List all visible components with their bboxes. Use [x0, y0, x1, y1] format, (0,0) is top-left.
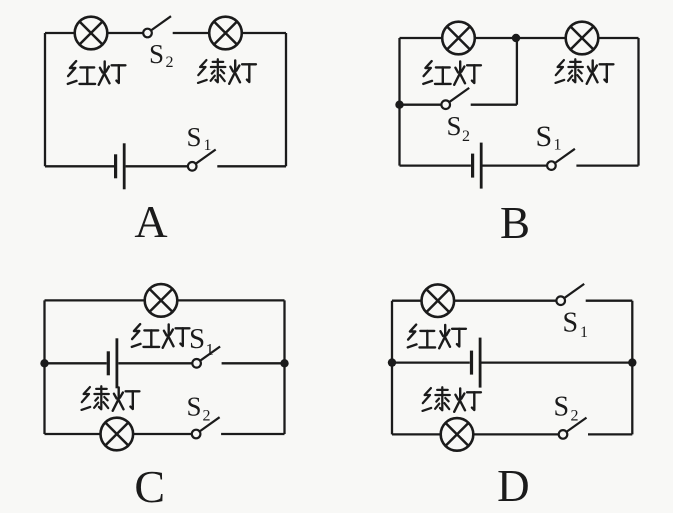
wire: D right side [631, 301, 633, 435]
wire: D top run (left corner to S1 pivot) [392, 300, 556, 302]
switch S2 circuit B [441, 88, 469, 109]
wire: C bottom run (S2 contact to right corner) [221, 433, 284, 435]
label 红灯 circuit C [132, 324, 190, 348]
svg-text:1: 1 [204, 137, 212, 154]
wire: D left side [391, 301, 393, 435]
wire: A left side [44, 33, 46, 166]
lamp 绿灯 (green lamp) circuit B [566, 22, 599, 55]
junction node on B top wire [512, 34, 520, 42]
switch S1 circuit B [547, 149, 575, 170]
svg-text:S: S [149, 39, 164, 69]
wire: C middle run (S1 contact to right node) [222, 362, 285, 364]
wire: B left side [398, 38, 400, 166]
lamp 红灯 (red lamp) circuit C top branch [145, 284, 178, 317]
switch S1 circuit A [188, 150, 216, 171]
svg-text:S: S [536, 120, 553, 153]
battery circuit C [108, 338, 117, 388]
wire: C bottom run (left corner to S2 pivot) [45, 433, 192, 435]
svg-text:S: S [187, 122, 202, 152]
wire: A right side [285, 33, 287, 166]
wire: B bottom run (battery to S1 pivot) [483, 164, 548, 166]
svg-text:D: D [497, 461, 530, 511]
svg-text:2: 2 [571, 408, 579, 425]
lamp 绿灯 (green lamp) circuit D bottom branch [441, 418, 474, 451]
wire: D bottom run (left corner to S2 pivot) [392, 433, 559, 435]
junction node on B left wire [395, 101, 403, 109]
wire: D bottom run (S2 contact to right corner) [588, 433, 632, 435]
battery circuit D [472, 338, 481, 388]
wire: A bottom run (S1 contact to right corner) [217, 165, 286, 167]
label 绿灯 circuit C [82, 386, 140, 411]
wire: B top run [400, 37, 639, 39]
wire: A bottom run (left corner to battery) [45, 165, 114, 167]
label 绿灯 circuit B [556, 59, 614, 84]
wire: C top run [45, 299, 285, 301]
switch S1 circuit C [192, 347, 220, 368]
junction node on D right wire [628, 358, 636, 366]
svg-text:1: 1 [554, 137, 562, 154]
label 红灯 circuit A [68, 61, 126, 85]
svg-text:S: S [187, 392, 202, 422]
wire: B S2 branch (contact to corner) [471, 104, 517, 106]
wire: C left side [43, 300, 45, 434]
wire: B S2 branch (node to pivot) [400, 104, 442, 106]
svg-text:A: A [134, 196, 167, 247]
battery circuit B [473, 143, 482, 189]
label 绿灯 circuit A [198, 59, 256, 84]
wire: A bottom run (battery to S1 pivot) [126, 165, 189, 167]
svg-text:1: 1 [206, 340, 215, 359]
junction node on C right wire [280, 359, 288, 367]
svg-text:S: S [189, 323, 205, 355]
label 红灯 circuit D [408, 325, 466, 349]
svg-text:B: B [500, 198, 530, 248]
svg-text:2: 2 [166, 54, 174, 71]
wire: D middle run (left node to battery) [392, 361, 470, 363]
svg-text:2: 2 [203, 408, 211, 425]
wire: B bottom run (S1 contact to right corner) [576, 164, 638, 166]
switch S2 circuit D [559, 418, 587, 439]
lamp 红灯 (red lamp) circuit A [75, 17, 108, 50]
svg-text:C: C [134, 461, 165, 512]
wire: C middle run (left node to battery) [45, 362, 107, 364]
wire: A top run (S2 contact to right corner) [173, 32, 286, 34]
wire: D top run (S1 contact to right corner) [586, 300, 633, 302]
svg-text:S: S [447, 111, 462, 141]
wire: C middle run (battery to S1 pivot) [118, 362, 192, 364]
wire: B bottom run (left corner to battery) [400, 164, 471, 166]
wire: B S2 branch vertical up to top junction [516, 38, 518, 105]
junction node on C left wire [40, 359, 48, 367]
label 红灯 circuit B [423, 61, 481, 85]
svg-text:S: S [563, 308, 579, 339]
battery circuit A [116, 143, 125, 189]
wire: B right side [637, 38, 639, 166]
wire: A top run (left corner to S2 pivot) [45, 32, 143, 34]
lamp 绿灯 (green lamp) circuit C bottom branch [101, 418, 134, 451]
lamp 红灯 (red lamp) circuit D top branch [422, 284, 455, 317]
lamp 红灯 (red lamp) circuit B [442, 22, 475, 55]
switch S2 circuit C [192, 417, 220, 438]
svg-text:S: S [554, 392, 570, 423]
label 绿灯 circuit D [423, 387, 481, 412]
junction node on D left wire [388, 358, 396, 366]
wire: D middle run (battery to right node) [481, 361, 632, 363]
switch S1 circuit D [556, 284, 584, 305]
svg-text:1: 1 [580, 324, 588, 341]
svg-text:2: 2 [462, 128, 470, 145]
wire: C right side [283, 300, 285, 434]
switch S2 circuit A [143, 16, 171, 37]
lamp 绿灯 (green lamp) circuit A [209, 17, 242, 50]
